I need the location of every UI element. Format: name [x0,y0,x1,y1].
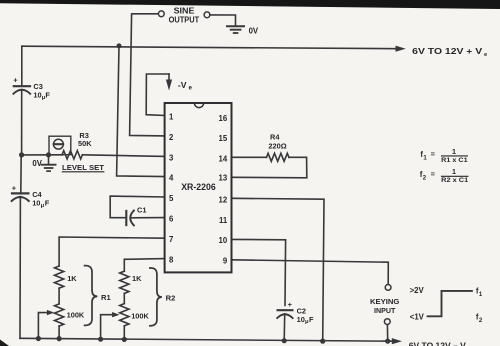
wire pin 8 to 1K (R2 branch) [124,259,164,272]
brace R1 [85,266,98,326]
svg-text:6V TO 12V – V: 6V TO 12V – V [409,341,467,346]
terminal sine output left [158,11,164,17]
svg-text:10: 10 [219,236,228,245]
terminal sine output right [204,12,210,18]
junction dot R1 branch bottom [57,336,62,341]
svg-text:15: 15 [219,134,228,143]
label f1 (waveform) [476,286,483,297]
svg-text:+: + [12,183,17,192]
op-amp / IC U1 XR-2206 [165,103,232,272]
wire pin 7 to 1K (R1 branch) [59,237,165,266]
wire 100K to bottom rail (R2 branch) [123,326,125,340]
wire C2 to bottom rail [283,314,286,341]
formula f2 = 1/(R2 x C1) [420,167,469,184]
label level set [62,163,105,172]
wire keying lower terminal to bottom rail [386,325,388,342]
svg-text:-V: -V [178,80,187,90]
label +Ve rail [412,47,488,58]
label f2 (waveform) [476,313,483,324]
potentiometer 100K (R1 branch) [55,304,64,326]
capacitor C1 [126,211,134,226]
ground 0V at R3 [42,155,56,171]
resistor R3 50K zigzag [62,151,82,159]
svg-text:R4: R4 [270,133,280,142]
svg-text:1: 1 [452,147,456,156]
ground 0V top [227,26,244,33]
svg-text:OUTPUT: OUTPUT [169,15,200,24]
label C3 value [33,82,50,101]
svg-text:220Ω: 220Ω [268,142,286,151]
label -Ve rail bottom [409,341,467,346]
wire C1 to pin 6 [132,217,165,219]
supply arrow -Ve (pin 1) [166,74,172,91]
svg-text:100K: 100K [131,311,149,320]
label C4 value [32,190,50,209]
brace R2 [150,268,162,326]
svg-text:9: 9 [223,257,228,266]
svg-text:14: 14 [219,155,228,164]
wire left rail (top rail corner down to C3) [21,46,23,85]
svg-text:6: 6 [169,215,174,224]
supply arrow -Ve bottom [392,338,402,344]
wire 0V node to C4 [20,155,22,193]
svg-text:11: 11 [219,216,228,225]
junction dot top rail to pin4 branch [117,43,122,48]
label -Ve (pin 1) [178,80,193,92]
wire C4 down left rail to bottom rail corner [19,197,21,339]
svg-text:1K: 1K [132,274,142,283]
svg-text:INPUT: INPUT [374,306,396,315]
label sine output [169,7,200,25]
wire 0V node to R3 [22,154,62,156]
svg-text:5: 5 [169,194,174,203]
terminal keying input upper [385,285,391,291]
svg-text:XR-2206: XR-2206 [181,181,216,192]
resistor R4 220 ohm, pin 14 to pin 13 [232,153,307,178]
svg-text:0V: 0V [32,159,42,168]
label R3 value [78,131,92,148]
svg-text:C1: C1 [137,205,146,214]
capacitor C2 [277,300,292,318]
svg-text:R1 x C1: R1 x C1 [441,157,468,164]
junction dot R1 wiper bottom [36,336,41,341]
svg-text:100K: 100K [67,310,85,319]
label C2 value [297,306,314,325]
trimmer body R3 [49,136,71,155]
svg-text:10: 10 [297,315,305,324]
wire +Ve dot down to pin 4 [117,46,165,177]
wire sine output to pin 2 [130,14,165,136]
svg-text:10: 10 [32,199,40,208]
svg-text:R2: R2 [166,293,176,302]
svg-text:LEVEL SET: LEVEL SET [62,163,104,172]
formula f1 = 1/(R1 x C1) [420,147,468,164]
wire pin 1 to -Ve bracket [146,74,169,116]
capacitor C3 [13,76,30,94]
capacitor C4 [12,183,29,201]
svg-text:1: 1 [452,167,456,176]
svg-text:=: = [431,170,436,179]
label keying input [370,297,399,315]
svg-text:F: F [45,199,50,208]
wiper arm 100K (R1 branch) [38,310,54,339]
svg-text:SINE: SINE [174,7,195,16]
svg-text:6V TO 12V + V: 6V TO 12V + V [412,47,483,56]
svg-text:>2V: >2V [410,286,425,295]
wire R3 to pin 3 [82,155,164,157]
wire 1K to 100K (R1 branch) [58,288,60,304]
svg-text:2: 2 [169,133,174,142]
junction dot R2 branch bottom [122,337,127,342]
terminal keying input lower [384,319,390,325]
junction dot pin12 at bottom rail [320,339,325,344]
junction dot at R3 ground tap [46,152,51,157]
label R4 value [268,133,286,151]
FSK waveform [428,291,472,316]
svg-text:12: 12 [219,195,228,204]
svg-text:R1: R1 [101,293,111,302]
wire sine output right terminal to ground [210,15,236,26]
svg-text:16: 16 [219,114,228,123]
junction dot keying at bottom rail [385,339,390,344]
svg-text:0V: 0V [249,26,259,35]
svg-text:e: e [189,85,193,92]
wire pin 5 to C1 [110,196,164,218]
svg-text:<1V: <1V [410,313,425,322]
junction dot 0V node on left rail [19,152,24,157]
wire top +Ve rail [22,46,397,49]
svg-text:10: 10 [33,91,41,100]
wire pin 12 to bottom rail [232,198,325,341]
svg-text:8: 8 [169,255,174,264]
supply arrow +Ve [396,46,406,52]
svg-text:50K: 50K [78,139,92,148]
wiper arm 100K (R2 branch) [101,312,120,339]
svg-text:=: = [431,149,436,158]
svg-text:7: 7 [169,235,173,244]
wire 100K to bottom rail (R1 branch) [58,326,60,339]
wire 1K to 100K (R2 branch) [123,293,125,303]
wire C3 to 0V node [21,90,23,155]
svg-text:+: + [288,300,293,309]
svg-text:3: 3 [169,153,174,162]
svg-text:KEYING: KEYING [370,297,399,306]
svg-text:1: 1 [169,112,174,121]
svg-text:1K: 1K [67,274,77,283]
svg-text:F: F [309,315,314,324]
svg-text:4: 4 [169,174,174,183]
resistor 1K (R2 branch) [120,271,129,293]
resistor 1K (R1 branch) [55,266,64,288]
svg-text:13: 13 [219,173,228,182]
wire pin 10 to C2 [232,239,286,305]
wire pin 9 to keying input [232,260,389,285]
svg-text:F: F [45,91,50,100]
wire bottom -Ve rail [20,338,393,341]
junction dot R2 wiper bottom [98,337,103,342]
potentiometer 100K (R2 branch) [120,304,129,326]
svg-text:R2 x C1: R2 x C1 [441,177,468,184]
svg-text:+: + [13,76,18,85]
junction dot C2 at bottom rail [282,338,287,343]
